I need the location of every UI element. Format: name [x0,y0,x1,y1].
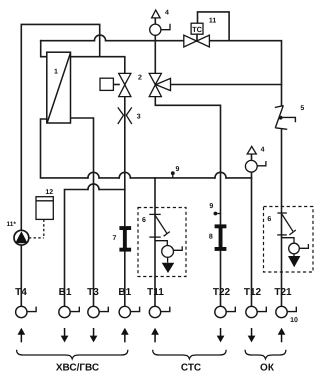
svg-text:T21: T21 [274,287,292,298]
svg-text:T4: T4 [15,287,27,298]
svg-text:4: 4 [261,146,265,153]
svg-text:B1: B1 [59,287,72,298]
svg-text:11: 11 [209,17,217,24]
svg-text:12: 12 [45,189,53,196]
svg-text:3: 3 [137,113,141,120]
svg-text:9: 9 [176,166,180,173]
svg-text:1: 1 [54,69,58,76]
svg-text:B1: B1 [118,287,131,298]
svg-text:10: 10 [290,317,298,324]
svg-text:ОК: ОК [260,362,275,373]
svg-text:8: 8 [209,233,213,240]
svg-text:T11: T11 [147,287,164,298]
svg-text:T22: T22 [213,287,231,298]
svg-text:5: 5 [300,105,304,112]
svg-text:11*: 11* [7,221,17,228]
svg-text:6: 6 [267,216,271,223]
svg-text:СТС: СТС [181,362,201,373]
svg-text:6: 6 [142,217,146,224]
svg-text:7: 7 [113,235,117,242]
svg-text:T3: T3 [87,287,99,298]
svg-text:TC: TC [192,25,203,34]
svg-text:9: 9 [209,203,213,210]
svg-text:4: 4 [165,10,169,17]
svg-text:T12: T12 [244,287,262,298]
svg-text:2: 2 [138,75,142,82]
svg-text:ХВС/ГВС: ХВС/ГВС [56,362,99,373]
